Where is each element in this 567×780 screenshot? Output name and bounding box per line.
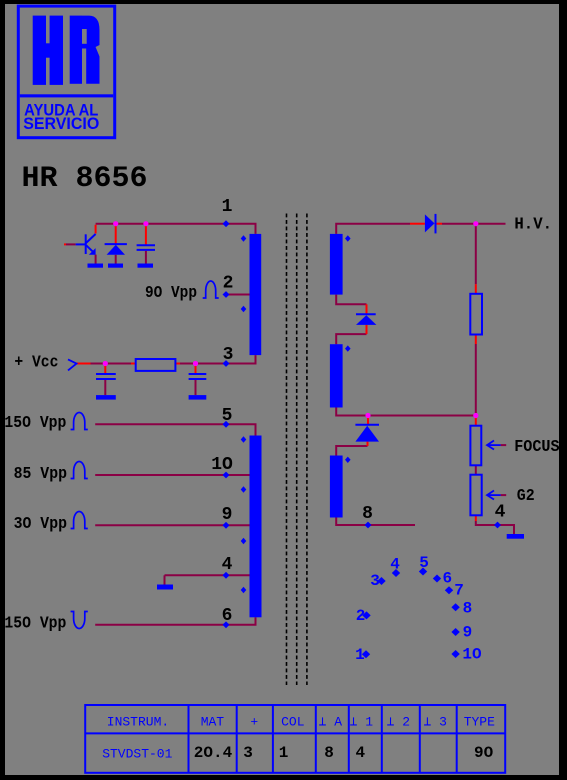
svg-text:85 Vpp: 85 Vpp: [14, 465, 67, 484]
svg-text:3: 3: [223, 345, 234, 365]
svg-text:INSTRUM.: INSTRUM.: [107, 715, 169, 730]
svg-text:8: 8: [324, 744, 334, 762]
svg-text:4: 4: [390, 556, 400, 574]
svg-text:9: 9: [222, 505, 233, 525]
svg-text:1: 1: [222, 197, 233, 217]
svg-text:1: 1: [279, 744, 289, 762]
svg-text:4: 4: [495, 503, 506, 523]
svg-text:4: 4: [355, 744, 365, 762]
svg-text:TYPE: TYPE: [464, 715, 495, 730]
svg-text:3: 3: [370, 572, 380, 590]
svg-text:SERVICIO: SERVICIO: [23, 115, 99, 133]
svg-text:3: 3: [243, 744, 253, 762]
svg-text:1: 1: [355, 646, 365, 664]
svg-text:⊥ A: ⊥ A: [319, 715, 343, 730]
svg-text:MAT: MAT: [201, 715, 225, 730]
svg-text:9O Vpp: 9O Vpp: [145, 284, 197, 303]
svg-text:5: 5: [222, 406, 233, 426]
svg-text:⊥ 3: ⊥ 3: [423, 715, 446, 730]
svg-text:FOCUS: FOCUS: [514, 438, 559, 457]
svg-text:9: 9: [463, 623, 473, 641]
svg-text:6: 6: [442, 569, 452, 587]
svg-text:6: 6: [222, 606, 233, 626]
svg-text:8: 8: [463, 600, 473, 618]
svg-text:⊥ 1: ⊥ 1: [350, 715, 374, 730]
svg-text:15O Vpp: 15O Vpp: [4, 414, 66, 433]
svg-text:8: 8: [362, 504, 373, 524]
svg-text:STVDST-01: STVDST-01: [102, 747, 172, 762]
svg-text:+: +: [250, 715, 258, 730]
svg-text:2: 2: [223, 274, 234, 294]
svg-text:⊥ 2: ⊥ 2: [387, 715, 410, 730]
svg-text:1O: 1O: [211, 455, 233, 475]
svg-text:1O: 1O: [462, 646, 482, 664]
svg-text:HR 8656: HR 8656: [22, 162, 148, 196]
svg-text:COL: COL: [281, 715, 304, 730]
svg-text:2O.4: 2O.4: [194, 744, 233, 762]
svg-text:G2: G2: [517, 487, 535, 506]
svg-text:2: 2: [356, 607, 366, 625]
svg-text:+ Vcc: + Vcc: [14, 354, 58, 373]
svg-text:4: 4: [222, 555, 233, 575]
svg-text:7: 7: [454, 582, 464, 600]
svg-text:5: 5: [419, 554, 429, 572]
svg-text:3O Vpp: 3O Vpp: [14, 515, 67, 534]
svg-text:15O Vpp: 15O Vpp: [4, 615, 66, 634]
svg-text:H.V.: H.V.: [514, 216, 552, 235]
svg-text:9O: 9O: [474, 744, 494, 762]
